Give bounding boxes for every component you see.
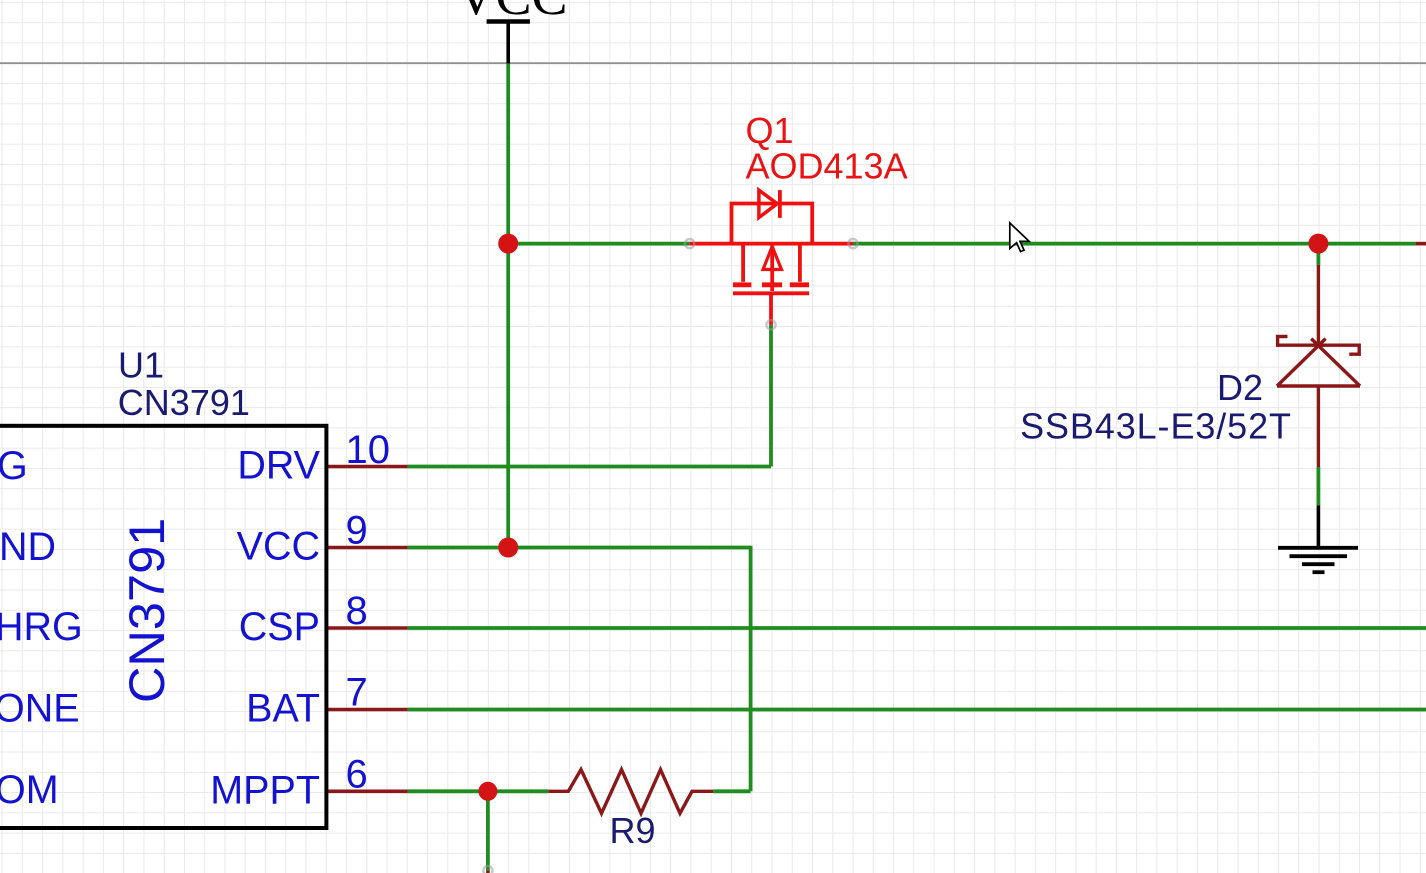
svg-text:ND: ND: [0, 525, 56, 569]
power flag VCC: [487, 22, 530, 64]
Q1 body diode triangle: [759, 190, 777, 218]
wire VCC pin: [408, 546, 751, 550]
junction node A: [498, 234, 518, 254]
wire CSP: [408, 626, 1426, 630]
sheet border line: [0, 62, 1426, 64]
svg-text:6: 6: [346, 752, 368, 796]
pin stub right edge: [1416, 242, 1426, 246]
pin 6 stub: [326, 789, 408, 793]
wire DRV: [408, 465, 771, 469]
wire VCC branch vertical: [749, 546, 753, 792]
junction node C: [498, 538, 518, 558]
wire MPPT down: [486, 791, 490, 870]
svg-text:VCC: VCC: [456, 0, 567, 26]
svg-text:G: G: [0, 444, 28, 488]
svg-text:OM: OM: [0, 768, 59, 812]
resistor R9: [548, 770, 713, 814]
pin end ring Q1 source: [685, 239, 694, 248]
wire R9 right: [713, 789, 751, 793]
svg-text:CN3791: CN3791: [118, 518, 175, 703]
wire D2 to ground: [1317, 467, 1321, 505]
ground symbol: [1278, 505, 1358, 572]
svg-text:CN3791: CN3791: [118, 382, 250, 423]
svg-text:U1: U1: [118, 345, 164, 386]
svg-text:7: 7: [346, 671, 368, 715]
svg-text:BAT: BAT: [246, 687, 320, 731]
transistor Q1: [690, 190, 853, 325]
wire MPPT: [408, 789, 549, 793]
wire stub below node B: [1317, 244, 1321, 265]
svg-text:DRV: DRV: [237, 444, 320, 488]
wire VCC vertical: [506, 63, 510, 547]
svg-text:VCC: VCC: [237, 525, 320, 569]
pin 8 stub: [326, 626, 408, 630]
junction node D: [478, 782, 497, 801]
svg-text:D2: D2: [1217, 367, 1263, 408]
wire gate vertical: [769, 325, 773, 467]
pin end ring Q1 drain: [848, 239, 857, 248]
mouse cursor: [1010, 223, 1029, 252]
pin end ring bottom: [483, 866, 492, 873]
pin 10 stub: [326, 465, 408, 469]
svg-text:10: 10: [346, 428, 391, 472]
svg-text:CSP: CSP: [239, 605, 320, 649]
svg-text:HRG: HRG: [0, 605, 83, 649]
svg-text:9: 9: [346, 509, 368, 553]
svg-text:R9: R9: [609, 810, 655, 851]
svg-text:8: 8: [346, 589, 368, 633]
wire BAT: [408, 708, 1426, 712]
junction node B: [1308, 234, 1328, 254]
svg-text:SSB43L-E3/52T: SSB43L-E3/52T: [1020, 405, 1292, 446]
IC U1 box: [0, 426, 326, 828]
svg-text:ONE: ONE: [0, 687, 80, 731]
diode D2: [1277, 265, 1360, 467]
pin 9 stub: [326, 546, 408, 550]
wire top horizontal left: [508, 242, 689, 246]
pin 7 stub: [326, 708, 408, 712]
svg-text:MPPT: MPPT: [210, 768, 320, 812]
wire top horizontal right: [853, 242, 1416, 246]
pin end ring Q1 gate: [766, 320, 775, 329]
svg-text:AOD413A: AOD413A: [746, 146, 908, 187]
pin stub bottom edge: [486, 871, 490, 873]
